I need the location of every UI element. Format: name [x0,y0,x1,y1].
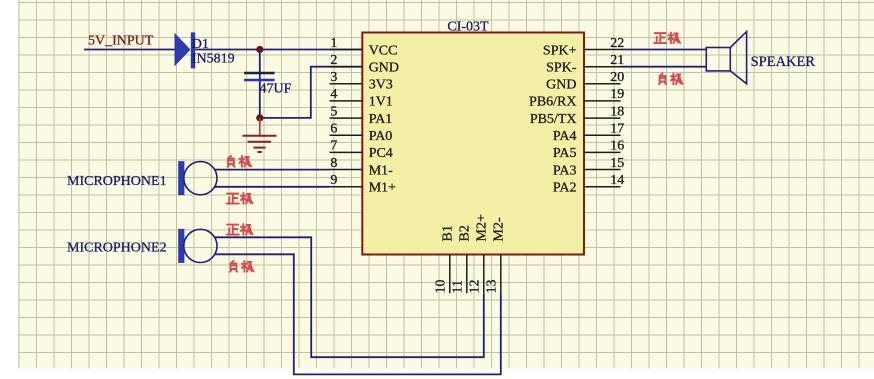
svg-text:4: 4 [330,87,337,102]
pin 9 M1+ [330,173,397,196]
pin 2 GND [330,53,400,76]
svg-text:MICROPHONE1: MICROPHONE1 [67,174,167,189]
svg-text:20: 20 [610,70,624,85]
svg-text:1V1: 1V1 [369,95,393,110]
svg-text:PC4: PC4 [369,146,393,161]
label 正极 mic2 [227,224,253,235]
pin 14 PA2 [553,173,624,196]
svg-text:10: 10 [433,280,448,294]
svg-text:CI-03T: CI-03T [447,19,489,34]
wire pin 22 SPK+ to speaker [621,49,707,51]
speaker LS1 [706,32,746,84]
wire pin 21 SPK- to speaker [621,66,707,68]
diode D1 [175,32,196,68]
svg-text:M1-: M1- [369,163,393,178]
svg-text:PA2: PA2 [553,181,577,196]
svg-text:9: 9 [330,173,337,188]
svg-text:5V_INPUT: 5V_INPUT [88,34,154,49]
capacitor C1 [244,73,275,80]
pin 19 PB6/RX [529,87,624,110]
label 正极 speaker [654,33,680,44]
pin 22 SPK+ [543,36,624,59]
wire mic1 positive to pin 9 M1+ [215,186,330,188]
svg-text:MICROPHONE2: MICROPHONE2 [67,241,167,256]
pin 11 B2 [450,225,472,293]
svg-text:8: 8 [330,156,337,171]
pin 4 1V1 [330,87,393,110]
svg-text:SPEAKER: SPEAKER [751,54,816,70]
wire junction to capacitor [259,50,261,118]
wire mic2 negative to pin 13 M2- [215,254,501,374]
svg-text:6: 6 [330,122,337,137]
pin 5 PA1 [330,104,393,127]
pin 21 SPK- [546,53,624,76]
svg-text:PA5: PA5 [553,146,577,161]
svg-text:11: 11 [450,280,465,293]
svg-text:15: 15 [610,156,624,171]
pin 8 M1- [330,156,394,179]
svg-text:B1: B1 [440,225,455,241]
svg-text:2: 2 [330,53,337,68]
svg-text:22: 22 [610,36,624,51]
svg-text:21: 21 [610,53,624,68]
svg-text:3: 3 [330,70,337,85]
microphone MICROPHONE1 [178,161,217,195]
svg-text:GND: GND [546,78,576,93]
svg-text:18: 18 [610,104,624,119]
pin 15 PA3 [553,156,624,179]
svg-text:16: 16 [610,139,624,154]
svg-text:VCC: VCC [369,43,398,58]
svg-text:PA1: PA1 [369,112,393,127]
pin 7 PC4 [330,139,393,162]
pin 3 3V3 [330,70,393,93]
wire mic2 positive to pin 12 M2+ [215,237,484,357]
wire 5V input to diode anode [84,49,175,51]
label 负极 mic1 [228,156,252,167]
microphone MICROPHONE2 [178,229,217,263]
svg-text:7: 7 [330,139,337,154]
pin 18 PB5/TX [530,104,624,127]
pin 6 PA0 [330,122,393,145]
svg-text:PA4: PA4 [553,129,577,144]
svg-text:M1+: M1+ [369,181,396,196]
wire mic1 negative to pin 8 M1- [215,169,330,171]
svg-text:PA0: PA0 [369,129,393,144]
pin 17 PA4 [553,122,624,145]
junction node VCC [256,46,263,53]
pin 12 M2+ [467,214,489,293]
svg-text:B2: B2 [457,225,472,241]
svg-text:SPK-: SPK- [546,61,577,76]
svg-text:14: 14 [610,173,624,188]
svg-text:GND: GND [369,61,399,76]
svg-text:PB5/TX: PB5/TX [530,112,577,127]
pin 1 VCC [330,36,398,59]
op IC U1 CI-03T body [362,33,584,255]
svg-text:M2+: M2+ [474,214,489,241]
svg-text:SPK+: SPK+ [543,43,577,58]
svg-text:IN5819: IN5819 [192,51,235,66]
label 负极 mic2 [230,261,254,272]
label 正极 mic1 [227,193,253,204]
ground [243,118,277,152]
pin 13 M2- [484,217,506,293]
pin 16 PA5 [553,139,624,162]
svg-text:5: 5 [330,104,337,119]
svg-text:M2-: M2- [491,217,506,241]
wire diode cathode to pin 1 [195,49,362,51]
svg-text:1: 1 [330,36,337,51]
svg-text:3V3: 3V3 [369,78,393,93]
svg-text:13: 13 [484,280,499,294]
wire junction to pin 2 GND [260,67,363,118]
svg-text:12: 12 [467,280,482,294]
svg-text:47UF: 47UF [260,81,292,96]
svg-text:PB6/RX: PB6/RX [529,95,576,110]
label 负极 speaker [659,73,683,84]
svg-text:19: 19 [610,87,624,102]
svg-text:PA3: PA3 [553,163,577,178]
pin 10 B1 [433,225,455,293]
junction node GND [256,114,263,121]
pin 20 GND [546,70,624,93]
svg-text:17: 17 [610,122,624,137]
